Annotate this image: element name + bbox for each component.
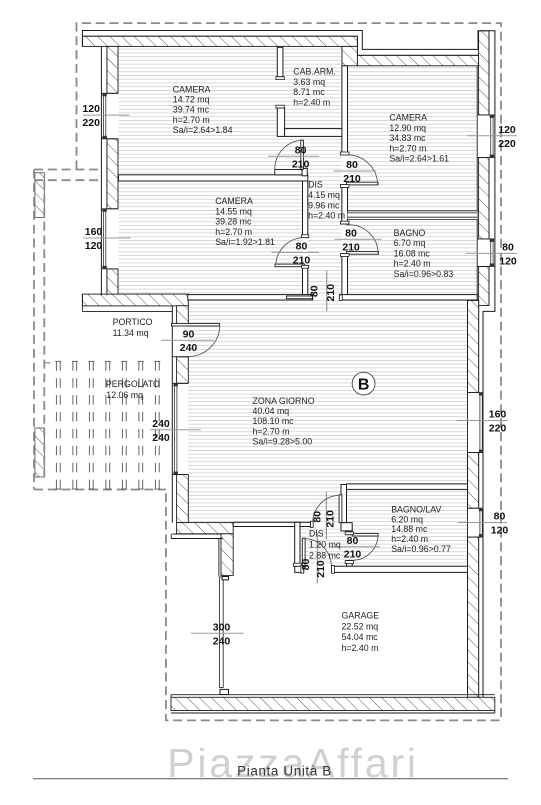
svg-text:16.08 mc: 16.08 mc <box>394 248 431 258</box>
svg-text:1.20 mq: 1.20 mq <box>309 539 341 549</box>
svg-text:160: 160 <box>85 226 103 238</box>
svg-text:210: 210 <box>325 510 337 528</box>
svg-text:108.10 mc: 108.10 mc <box>253 416 295 426</box>
svg-text:B: B <box>358 376 370 393</box>
svg-text:240: 240 <box>152 418 170 430</box>
svg-text:210: 210 <box>293 254 311 266</box>
svg-text:90: 90 <box>183 328 195 340</box>
svg-text:80: 80 <box>312 511 324 523</box>
svg-text:CAB.ARM.: CAB.ARM. <box>293 66 336 76</box>
svg-text:h=2.70 m: h=2.70 m <box>389 143 426 153</box>
svg-text:6.20 mq: 6.20 mq <box>391 514 423 524</box>
svg-text:8.71 mc: 8.71 mc <box>293 87 325 97</box>
svg-text:h=2.70 m: h=2.70 m <box>253 426 290 436</box>
svg-text:210: 210 <box>292 158 310 170</box>
svg-text:210: 210 <box>325 284 337 302</box>
svg-text:210: 210 <box>343 173 361 185</box>
svg-text:h=2.40 m: h=2.40 m <box>293 97 330 107</box>
svg-text:4.15 mq: 4.15 mq <box>308 190 340 200</box>
svg-text:80: 80 <box>494 511 506 523</box>
svg-text:Sa/i=2.64>1.84: Sa/i=2.64>1.84 <box>173 125 233 135</box>
svg-text:6.70 mq: 6.70 mq <box>394 238 426 248</box>
svg-text:BAGNO: BAGNO <box>394 228 426 238</box>
svg-text:120: 120 <box>499 255 517 267</box>
svg-text:12.06 mq: 12.06 mq <box>106 390 143 400</box>
svg-text:Sa/i=9.28>5.00: Sa/i=9.28>5.00 <box>253 437 313 447</box>
svg-text:80: 80 <box>295 144 307 156</box>
svg-text:GARAGE: GARAGE <box>342 611 380 621</box>
svg-text:h=2.40 m: h=2.40 m <box>391 534 428 544</box>
svg-text:120: 120 <box>82 103 100 115</box>
svg-text:h=2.70 m: h=2.70 m <box>215 227 252 237</box>
svg-text:22.52 mq: 22.52 mq <box>342 621 379 631</box>
svg-text:12.90 mq: 12.90 mq <box>389 123 426 133</box>
svg-text:80: 80 <box>502 242 514 254</box>
svg-text:PORTICO: PORTICO <box>113 317 153 327</box>
svg-text:40.04 mq: 40.04 mq <box>253 406 290 416</box>
svg-text:BAGNO/LAV: BAGNO/LAV <box>391 505 441 515</box>
svg-text:h=2.40 m: h=2.40 m <box>308 211 345 221</box>
svg-text:h=2.40 m: h=2.40 m <box>394 259 431 269</box>
svg-text:DIS: DIS <box>309 529 324 539</box>
svg-text:80: 80 <box>296 241 308 253</box>
svg-text:h=2.70 m: h=2.70 m <box>173 115 210 125</box>
svg-text:39.28 mc: 39.28 mc <box>215 217 252 227</box>
svg-text:CAMERA: CAMERA <box>389 113 427 123</box>
svg-text:Sa/i=1.92>1.81: Sa/i=1.92>1.81 <box>215 237 275 247</box>
svg-text:120: 120 <box>491 525 509 537</box>
svg-text:300: 300 <box>213 621 231 633</box>
svg-text:210: 210 <box>344 549 362 561</box>
svg-text:Sa/i=0.96>0.83: Sa/i=0.96>0.83 <box>394 269 454 279</box>
svg-text:39.74 mc: 39.74 mc <box>173 105 210 115</box>
svg-text:9.96 mc: 9.96 mc <box>308 200 340 210</box>
svg-text:220: 220 <box>82 117 100 129</box>
svg-text:120: 120 <box>498 124 516 136</box>
svg-text:54.04 mc: 54.04 mc <box>342 632 379 642</box>
svg-text:80: 80 <box>345 227 357 239</box>
svg-text:2.88 mc: 2.88 mc <box>309 550 341 560</box>
svg-text:PERGOLATO: PERGOLATO <box>106 379 160 389</box>
svg-text:210: 210 <box>315 560 327 578</box>
svg-text:220: 220 <box>498 138 516 150</box>
svg-text:14.72 mq: 14.72 mq <box>173 95 210 105</box>
svg-text:3.63 mq: 3.63 mq <box>293 77 325 87</box>
svg-text:34.83 mc: 34.83 mc <box>389 133 426 143</box>
svg-text:CAMERA: CAMERA <box>173 84 211 94</box>
svg-text:14.55 mq: 14.55 mq <box>215 206 252 216</box>
svg-text:210: 210 <box>342 241 360 253</box>
svg-text:CAMERA: CAMERA <box>215 196 253 206</box>
svg-text:80: 80 <box>309 285 321 297</box>
svg-text:220: 220 <box>489 423 507 435</box>
svg-text:Pianta Unità B: Pianta Unità B <box>237 764 332 779</box>
svg-text:80: 80 <box>346 159 358 171</box>
svg-text:Sa/i=2.64>1.61: Sa/i=2.64>1.61 <box>389 154 449 164</box>
svg-text:160: 160 <box>489 409 507 421</box>
svg-text:14.88 mc: 14.88 mc <box>391 524 428 534</box>
svg-text:h=2.40 m: h=2.40 m <box>342 643 379 653</box>
svg-text:240: 240 <box>213 635 231 647</box>
svg-text:ZONA GIORNO: ZONA GIORNO <box>253 396 315 406</box>
svg-text:120: 120 <box>85 240 103 252</box>
svg-text:11.34 mq: 11.34 mq <box>113 328 149 338</box>
svg-text:240: 240 <box>152 432 170 444</box>
svg-text:240: 240 <box>180 342 198 354</box>
svg-text:DIS: DIS <box>308 180 323 190</box>
svg-text:80: 80 <box>347 535 359 547</box>
svg-text:Sa/i=0.96>0.77: Sa/i=0.96>0.77 <box>391 544 451 554</box>
